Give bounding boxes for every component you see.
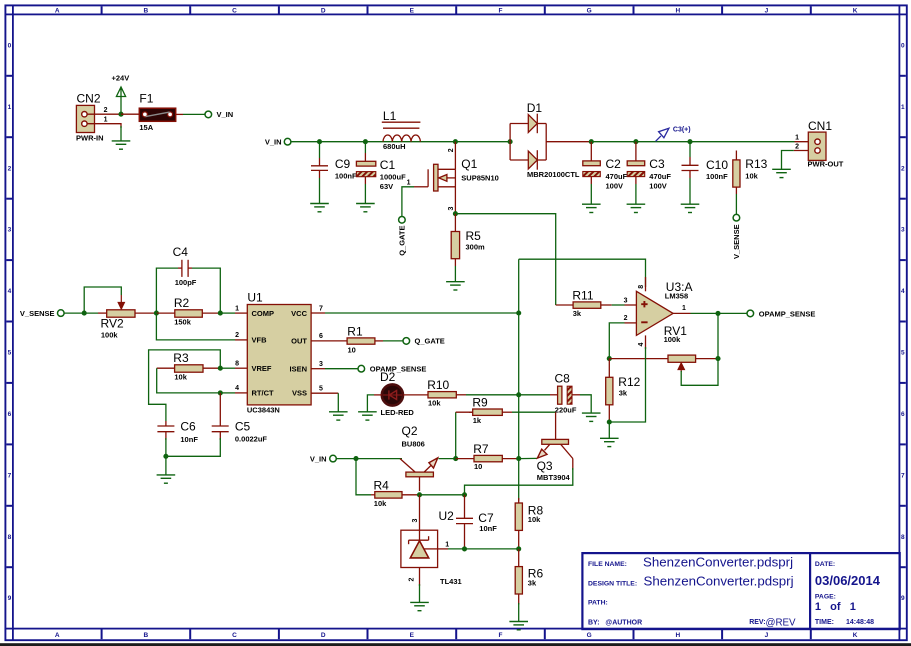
terminal V_IN input [205,110,233,119]
wire R9 left leg [455,412,457,458]
wire R3 left to RT/CT [157,368,221,393]
svg-text:Q1: Q1 [461,157,477,171]
wire bus to Q3 emitter [519,457,537,459]
resistor R8 [515,498,543,549]
resistor R5 [451,214,485,259]
power +24V symbol [112,74,130,115]
svg-text:U1: U1 [247,291,263,305]
wire current sense to R11 [455,214,555,305]
svg-text:G: G [587,632,592,639]
svg-text:VREF: VREF [252,364,272,373]
svg-text:COMP: COMP [252,309,275,318]
wire ground drop [120,126,122,141]
wire bus top to opamp V+ [519,259,646,287]
svg-text:C: C [232,632,237,639]
svg-text:R3: R3 [173,351,189,365]
ground C3 [627,204,646,212]
svg-text:2: 2 [409,578,416,582]
wire C2 to ground [590,177,592,184]
svg-text:MBR20100CTL: MBR20100CTL [527,170,580,179]
svg-text:3: 3 [448,207,455,211]
wire CN2 pin1 to ground drop [87,124,121,128]
svg-text:6: 6 [901,411,905,418]
potentiometer RV1 [609,324,718,372]
svg-text:D: D [321,8,326,15]
resistor R7 [456,442,519,471]
resistor R1 [347,324,403,354]
svg-text:Q3: Q3 [537,459,553,473]
wire rail D1 to CN1 [591,141,794,143]
terminal Q_GATE lower [397,217,406,256]
svg-text:4: 4 [235,385,239,392]
ground R6 [509,622,528,630]
svg-text:PWR-OUT: PWR-OUT [808,160,844,169]
svg-text:TL431: TL431 [440,577,462,586]
svg-text:8: 8 [8,534,12,541]
svg-text:RT/CT: RT/CT [252,389,274,398]
ground C2 [582,204,601,212]
node C7 top junction [462,492,467,497]
svg-text:VCC: VCC [291,309,307,318]
svg-text:2: 2 [624,315,628,322]
wire rail V_IN to Q1 drain [291,141,456,143]
svg-text:R4: R4 [374,479,390,493]
svg-text:MBT3904: MBT3904 [537,473,571,482]
node C9 junction [317,139,322,144]
wire pin4 to R12 bottom [609,347,645,422]
svg-text:FILE NAME:: FILE NAME: [588,561,627,568]
svg-text:CN1: CN1 [808,119,832,133]
capacitor C6 [157,419,198,444]
wire Q3 collector to base drive node [465,459,573,495]
resistor R12 [606,359,641,422]
svg-text:1: 1 [104,117,108,124]
capacitor C1 electrolytic [356,158,406,191]
svg-text:R13: R13 [745,157,767,171]
svg-text:R1: R1 [347,324,363,338]
svg-text:C: C [232,8,237,15]
wire RT/CT pin4 [220,392,235,394]
wire opamp output [673,312,747,314]
capacitor C9 [311,157,357,181]
svg-text:V_IN: V_IN [310,454,327,463]
svg-text:ShenzenConverter.pdsprj: ShenzenConverter.pdsprj [644,574,794,589]
svg-text:V_SENSE: V_SENSE [20,309,55,318]
wire R12 node to ground [608,422,610,438]
svg-text:OPAMP_SENSE: OPAMP_SENSE [759,309,816,318]
svg-text:E: E [410,8,415,15]
node Q1 drain junction [453,139,458,144]
wire TL431 cathode [419,495,421,540]
terminal OPAMP_SENSE at ISEN [358,365,426,374]
svg-text:RV2: RV2 [101,317,124,331]
capacitor C3 electrolytic [627,142,671,191]
svg-text:LED-RED: LED-RED [381,408,415,417]
svg-text:1: 1 [901,104,905,111]
node V_IN/R4 junction [353,456,358,461]
svg-text:2: 2 [901,165,905,172]
shunt regulator U2 TL431 [401,509,462,586]
ground TL431 [410,602,429,610]
transistor Q3 MBT3904 [537,412,573,482]
svg-text:3k: 3k [528,579,537,588]
diode D1 MBR20100CTL [508,101,589,179]
svg-text:100V: 100V [606,182,624,191]
node RV2 left junction [82,311,87,316]
svg-text:CN2: CN2 [77,91,101,105]
wire C4 left leg [156,268,178,313]
wire C10 drop [689,142,691,157]
capacitor C7 [456,495,497,549]
svg-text:REV:: REV: [749,619,765,626]
svg-text:150k: 150k [174,318,192,327]
wire VCC bus vertical [518,259,520,500]
svg-text:K: K [853,8,858,15]
node R2/COMP junction [218,311,223,316]
svg-text:D1: D1 [527,101,543,115]
svg-text:OPAMP_SENSE: OPAMP_SENSE [370,365,427,374]
svg-text:3k: 3k [573,309,582,318]
svg-text:F: F [499,632,503,639]
svg-text:0: 0 [8,42,12,49]
svg-text:R11: R11 [572,288,593,302]
terminal V_SENSE under R13 [732,214,741,259]
svg-text:470uF: 470uF [606,172,628,181]
wire RT/CT to C5 [219,393,221,426]
svg-text:1000uF: 1000uF [380,173,406,182]
wire C1 to ground [364,177,366,184]
capacitor C5 [212,419,268,443]
resistor R13 [733,151,768,188]
svg-text:3k: 3k [619,388,628,397]
node C1 junction [363,139,368,144]
svg-text:9: 9 [8,595,12,602]
node R4/Q2 base/TL431 junction [417,492,422,497]
svg-text:R5: R5 [466,229,482,243]
svg-text:0: 0 [901,42,905,49]
svg-text:1: 1 [445,542,449,549]
svg-text:03/06/2014: 03/06/2014 [815,573,881,588]
svg-text:Q2: Q2 [402,424,418,438]
ground CN1 [772,169,791,177]
svg-text:8: 8 [235,361,239,368]
svg-text:C4: C4 [173,245,189,259]
svg-text:100V: 100V [649,182,667,191]
node C3(+) probe marker [656,127,691,142]
terminal V_IN rail [265,138,291,147]
svg-text:A: A [55,8,60,15]
svg-text:100pF: 100pF [175,278,197,287]
wire R5 to ground [454,259,456,266]
wire Q2 emitter to node [439,458,456,460]
wire C8 to ground [572,395,591,413]
svg-text:VFB: VFB [252,336,268,345]
wire CN1 pin2 to ground [782,151,815,170]
wire junction to F1 [121,113,139,115]
svg-text:1: 1 [682,305,686,312]
svg-text:ShenzenConverter.pdsprj: ShenzenConverter.pdsprj [643,554,793,569]
node RV2/R2/C4/VFB junction [154,311,159,316]
svg-text:K: K [853,632,858,639]
wire VCC pin7 to bus [311,312,519,314]
wire R4 left leg [356,459,371,495]
svg-text:B: B [144,632,149,639]
svg-text:3: 3 [624,298,628,305]
svg-text:470uF: 470uF [649,172,671,181]
resistor R11 [556,288,637,318]
node RV1 right junction [715,356,720,361]
wire C1 drop [364,142,366,153]
svg-text:R10: R10 [427,378,449,392]
svg-text:63V: 63V [380,182,393,191]
svg-text:1 of 1: 1 of 1 [815,601,856,613]
svg-text:R7: R7 [473,442,489,456]
wire V_SENSE to RV2 [64,312,98,314]
ground R12 [600,438,619,446]
capacitor C2 electrolytic [583,142,628,191]
wire OUT pin6 to R1 [311,340,347,342]
wire VREF loop to C6 [149,350,221,421]
op-amp controller U1 UC3843N [247,291,311,415]
svg-text:J: J [765,8,769,15]
svg-text:10k: 10k [428,398,441,407]
wire ISEN pin3 [311,368,325,370]
svg-text:R12: R12 [618,375,640,389]
svg-text:R9: R9 [472,396,488,410]
svg-text:1: 1 [407,179,411,186]
svg-text:1k: 1k [473,416,482,425]
terminal V_SENSE left [20,309,64,318]
svg-text:10k: 10k [374,499,387,508]
svg-text:100nF: 100nF [706,172,728,181]
ground CN2 [112,141,131,149]
title block [582,553,899,629]
svg-text:6: 6 [8,411,12,418]
svg-text:G: G [587,8,592,15]
svg-text:ISEN: ISEN [289,364,307,373]
svg-text:5: 5 [8,350,12,357]
node VREF pin8 junction [218,366,223,371]
terminal V_IN at Q2 [310,454,336,463]
svg-text:SUP85N10: SUP85N10 [461,173,499,182]
svg-text:2: 2 [104,107,108,114]
svg-text:3: 3 [412,519,419,523]
wire rail to D1 [455,141,510,143]
wire COMP pin1 [220,312,235,314]
svg-text:C8: C8 [555,372,571,386]
svg-text:L1: L1 [383,109,397,123]
svg-text:PATH:: PATH: [588,600,608,607]
node C6/C5 ground junction [163,454,168,459]
svg-text:5: 5 [901,350,905,357]
svg-text:4: 4 [638,343,645,347]
border row ticks left and right [6,76,906,567]
svg-text:B: B [144,8,149,15]
wire TL431 ref to C7 [438,548,448,550]
svg-text:10k: 10k [745,172,758,181]
wire CN1 pin1 [795,141,815,143]
svg-text:1: 1 [8,104,12,111]
wire TL431 anode to ground [419,568,421,603]
connector CN1 [808,119,844,169]
svg-text:PAGE:: PAGE: [815,594,836,601]
svg-text:10k: 10k [528,515,541,524]
svg-text:E: E [410,632,415,639]
svg-text:8: 8 [638,285,645,289]
svg-text:3: 3 [901,227,905,234]
ground C9 [310,204,329,212]
wire C7 node to R8/R6 node [465,548,519,550]
terminal OPAMP_SENSE output [747,309,815,318]
svg-text:Q_GATE: Q_GATE [415,337,445,346]
border column ticks top and bottom [102,6,811,639]
wire Q1 gate to Q_GATE terminal [402,187,428,217]
svg-text:D: D [321,632,326,639]
svg-text:4: 4 [8,288,12,295]
wire VSS pin5 to ground [311,393,338,412]
svg-text:2: 2 [795,143,799,150]
svg-text:UC3843N: UC3843N [247,405,280,414]
bottom black band [0,643,911,646]
node junction CN2/F1/+24V [118,112,123,117]
wire C6 C5 to ground [166,432,220,475]
svg-text:7: 7 [319,305,323,312]
wire base node to C7 node [420,494,465,496]
capacitor C4 [173,245,197,287]
resistor R3 [157,351,221,381]
node Q2 emitter junction [453,456,458,461]
svg-text:1: 1 [795,134,799,141]
svg-text:VSS: VSS [292,389,307,398]
svg-text:C5: C5 [235,419,251,433]
svg-text:F1: F1 [139,92,153,106]
wire CN2 pin2 to junction [87,113,121,115]
svg-text:C3: C3 [649,157,665,171]
wire VFB pin2 [156,313,247,340]
svg-text:10nF: 10nF [180,435,198,444]
ground C10 [681,204,700,212]
wire C9 to ground [319,170,321,178]
transistor Q2 BU806 [400,424,438,491]
svg-text:H: H [675,632,680,639]
svg-text:9: 9 [901,595,905,602]
wire C3 to ground [635,177,637,184]
node C7 bottom junction [462,546,467,551]
svg-text:H: H [675,8,680,15]
inductor L1 [382,109,421,151]
transistor Q1 MOSFET SUP85N10 [428,142,499,214]
svg-text:C2: C2 [606,157,622,171]
svg-text:J: J [765,632,769,639]
wire inverting input pin2 [609,323,636,359]
svg-text:F: F [499,8,503,15]
wire R6 to ground [518,603,520,622]
node RT/CT pin4 junction [218,390,223,395]
svg-text:PWR-IN: PWR-IN [76,133,104,142]
fuse F1 [139,92,175,133]
svg-text:@REV: @REV [766,618,797,629]
wire RV1 wiper loop [681,359,718,386]
LED D2 [380,370,414,417]
wire output to RV1 right [717,313,719,358]
resistor R6 [515,549,543,605]
svg-text:8: 8 [901,534,905,541]
svg-text:BU806: BU806 [402,439,425,448]
svg-text:A: A [55,632,60,639]
svg-text:C1: C1 [380,158,396,172]
svg-text:100nF: 100nF [335,172,357,181]
wire D2 anode to ground [367,395,381,412]
node R8/R6 junction [516,546,521,551]
wire RV2 wiper loop [84,287,121,313]
svg-text:5: 5 [319,386,323,393]
svg-text:300m: 300m [466,242,486,251]
svg-text:LM358: LM358 [665,292,688,301]
wire VREF pin8 [220,367,235,369]
svg-text:V_SENSE: V_SENSE [732,224,741,259]
svg-text:10nF: 10nF [479,524,497,533]
svg-text:14:48:48: 14:48:48 [846,619,874,626]
svg-text:7: 7 [901,472,905,479]
svg-text:BY: @AUTHOR: BY: @AUTHOR [588,619,642,626]
svg-text:V_IN: V_IN [217,110,234,119]
wire D2 cathode to R10 [403,394,428,396]
node R10/C8 bus junction [516,392,521,397]
ground R5 [446,282,465,290]
wire R9 to Q3 base [512,411,556,413]
ground U1 VSS [329,412,348,420]
svg-text:DESIGN TITLE:: DESIGN TITLE: [588,580,637,587]
svg-text:1: 1 [235,305,239,312]
wire V_IN to Q2 collector [336,458,402,460]
node C3 junction [633,139,638,144]
node C2 junction [589,139,594,144]
resistor R2 [156,296,220,326]
node R12/pin4 junction [607,419,612,424]
node output junction [715,311,720,316]
wire R13 to V_SENSE terminal [735,187,737,194]
ground C6 C5 [157,475,176,483]
svg-text:D2: D2 [380,370,396,384]
svg-text:10k: 10k [174,372,187,381]
capacitor C8 electrolytic [519,372,577,415]
svg-text:V_IN: V_IN [265,138,282,147]
svg-text:680uH: 680uH [383,142,406,151]
potentiometer RV2 [98,295,156,339]
wire C4 right leg [192,268,220,313]
resistor R9 [469,396,512,426]
svg-text:OUT: OUT [291,337,307,346]
node R7/Q3 emitter bus junction [516,456,521,461]
svg-text:100k: 100k [664,335,682,344]
svg-text:3: 3 [8,227,12,234]
svg-text:C3(+): C3(+) [673,127,691,134]
resistor R4 [371,479,420,509]
svg-text:2: 2 [235,332,239,339]
node R5 top junction [453,211,458,216]
op-amp U3:A LM358 [636,277,692,349]
ground C1 [356,204,375,212]
svg-text:100k: 100k [101,330,119,339]
wire C9 drop [319,142,321,158]
connector CN2 [76,91,104,142]
svg-text:6: 6 [319,333,323,340]
svg-text:2: 2 [448,148,455,152]
node C10 junction [687,139,692,144]
resistor R10 [427,378,519,407]
svg-text:R2: R2 [174,296,190,310]
svg-text:+24V: +24V [112,74,130,83]
